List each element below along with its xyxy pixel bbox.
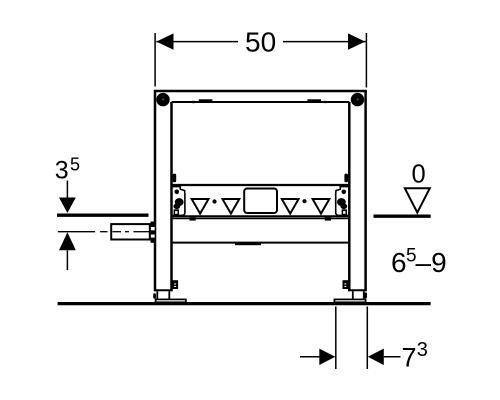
left rail bottom edge <box>154 289 173 291</box>
mid rail center plate <box>244 189 277 214</box>
mid rail triangle 4 <box>313 199 330 214</box>
dimension 73 left tail line <box>300 356 320 358</box>
dimension 50 left arrowhead <box>156 33 173 49</box>
svg-text:3: 3 <box>55 156 69 184</box>
frame top bar top edge <box>154 90 367 93</box>
mid rail triangle 3 <box>282 199 299 214</box>
dimension 35 up arrow <box>59 232 76 250</box>
right rail inner line <box>348 102 351 291</box>
dimension 73 extension line right <box>366 307 368 370</box>
right bracket <box>336 174 348 216</box>
dimension 73 extension line left <box>335 307 337 370</box>
svg-text:50: 50 <box>245 26 276 57</box>
lower bar center bump <box>235 243 261 245</box>
dimension 73 right arrowhead <box>368 349 384 365</box>
svg-text:5: 5 <box>70 155 80 175</box>
mid rail triangle 2 <box>223 199 240 214</box>
svg-text:0: 0 <box>412 160 426 188</box>
dimension 50 extension line left <box>154 33 156 87</box>
svg-text:7: 7 <box>402 343 417 373</box>
top bar slot left <box>199 99 213 103</box>
frame top bar bottom edge <box>172 101 350 103</box>
mid rail dot left <box>212 199 216 203</box>
svg-text:6: 6 <box>391 247 407 278</box>
left rail outer line <box>154 90 157 291</box>
mid rail bottom edge <box>173 215 349 217</box>
lower bar top edge <box>173 218 349 220</box>
dimension 73 right tail line <box>384 356 401 358</box>
dimension 35 upper leader line <box>66 181 68 199</box>
zero level line right <box>374 214 431 217</box>
dimension 50 line right segment <box>283 41 366 43</box>
svg-text:–9: –9 <box>416 247 447 278</box>
right clamp lower <box>343 280 349 289</box>
top bar slot right dot <box>324 101 326 103</box>
right foot lock blob <box>364 292 367 298</box>
zero level triangle <box>405 188 430 212</box>
corner bolt left <box>156 93 169 106</box>
lower bar bottom edge <box>173 242 349 244</box>
dimension 50 line left segment <box>156 41 238 43</box>
left foot lock blob <box>153 293 156 298</box>
right foot tube <box>352 291 354 299</box>
dimension 73 left arrowhead <box>319 349 335 365</box>
tab below mid rail right <box>325 218 331 221</box>
svg-text:3: 3 <box>417 339 428 361</box>
corner bolt right <box>351 93 364 106</box>
left foot plate <box>156 299 186 302</box>
left bracket <box>173 174 185 216</box>
dimension 50 right arrowhead <box>348 33 365 49</box>
floor line <box>58 302 431 305</box>
right rail bottom edge <box>348 289 366 291</box>
dimension 50 extension line right <box>365 33 367 88</box>
mid rail triangle 1 <box>192 199 209 214</box>
top bar slot right <box>307 99 321 103</box>
dimension 35 down arrow <box>59 198 76 214</box>
left foot tube <box>156 291 158 299</box>
mid rail top edge <box>173 184 349 186</box>
pipe center line <box>58 231 149 233</box>
right foot plate <box>334 299 365 302</box>
zero level line left <box>57 213 149 216</box>
tab below mid rail left <box>190 218 196 221</box>
top bar slot left dot <box>192 101 194 103</box>
dimension 35 lower leader line <box>66 250 68 270</box>
drain pipe flange <box>151 222 156 243</box>
left rail inner line <box>170 102 173 291</box>
right rail outer line <box>364 90 367 291</box>
drain pipe <box>111 224 150 239</box>
mid rail dot right <box>302 199 306 203</box>
left clamp lower <box>172 280 178 289</box>
